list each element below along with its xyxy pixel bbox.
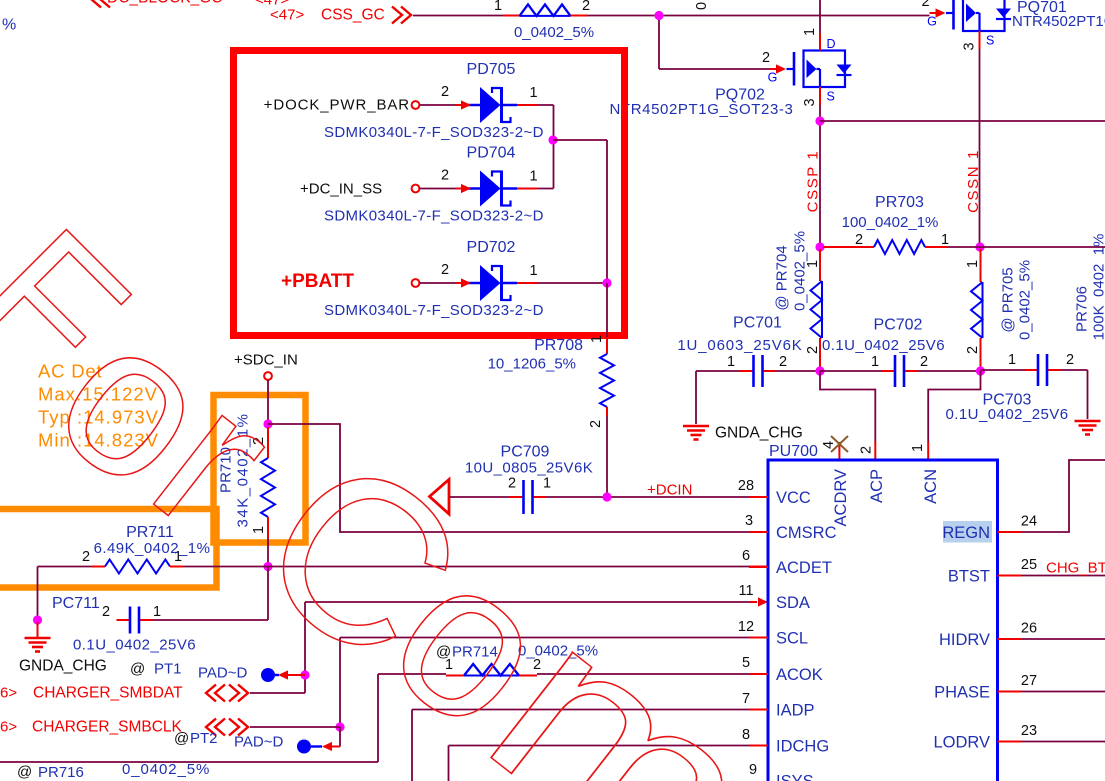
svg-text:1: 1 <box>543 476 551 492</box>
svg-text:2: 2 <box>965 346 981 354</box>
svg-text:PAD~D: PAD~D <box>234 734 283 751</box>
svg-text:2: 2 <box>920 354 928 370</box>
svg-text:23: 23 <box>1021 723 1037 739</box>
svg-text:1: 1 <box>153 604 161 620</box>
svg-text:ACN: ACN <box>922 469 940 504</box>
svg-text:1: 1 <box>529 263 537 279</box>
svg-text:CHG_BTST: CHG_BTST <box>1046 560 1105 577</box>
svg-text:@: @ <box>174 730 189 747</box>
svg-text:2: 2 <box>102 604 110 620</box>
svg-text:2: 2 <box>779 354 787 370</box>
svg-text:1: 1 <box>494 0 502 14</box>
svg-text:DC_BLOCK_GC: DC_BLOCK_GC <box>107 0 222 7</box>
svg-text:LODRV: LODRV <box>933 734 990 752</box>
svg-text:100_0402_1%: 100_0402_1% <box>842 214 939 231</box>
svg-text:2: 2 <box>441 84 449 100</box>
svg-text:NTR4502PT1G_SOT23-3: NTR4502PT1G_SOT23-3 <box>610 101 794 118</box>
svg-text:PR716: PR716 <box>38 764 84 781</box>
svg-text:PD705: PD705 <box>467 61 516 78</box>
svg-text:PU700: PU700 <box>769 443 818 460</box>
svg-text:2: 2 <box>805 346 821 354</box>
svg-text:PD704: PD704 <box>467 145 516 162</box>
svg-text:+DOCK_PWR_BAR: +DOCK_PWR_BAR <box>264 97 410 114</box>
svg-text:@ PR704: @ PR704 <box>774 245 791 310</box>
svg-text:1: 1 <box>910 444 926 452</box>
svg-text:ISYS: ISYS <box>776 773 814 781</box>
svg-text:1: 1 <box>802 28 818 36</box>
svg-text:0.1U_0402_25V6: 0.1U_0402_25V6 <box>822 337 945 354</box>
svg-text:ACP: ACP <box>868 469 886 503</box>
svg-text:2: 2 <box>508 476 516 492</box>
svg-text:GNDA_CHG: GNDA_CHG <box>19 658 107 675</box>
svg-text:2: 2 <box>1066 352 1074 368</box>
svg-text:@: @ <box>17 764 32 781</box>
svg-text:PC711: PC711 <box>52 595 100 612</box>
svg-text:2: 2 <box>582 0 590 14</box>
svg-text:PC709: PC709 <box>501 444 550 461</box>
svg-text:6>: 6> <box>0 685 17 702</box>
svg-text:D: D <box>827 37 836 51</box>
svg-text:6>: 6> <box>0 719 17 736</box>
svg-text:27: 27 <box>1021 673 1037 689</box>
svg-text:PC702: PC702 <box>874 317 923 334</box>
svg-text:0.1U_0402_25V6: 0.1U_0402_25V6 <box>73 637 196 654</box>
svg-text:+DC_IN_SS: +DC_IN_SS <box>300 181 382 198</box>
svg-text:24: 24 <box>1021 514 1037 530</box>
svg-text:SDMK0340L-7-F_SOD323-2~D: SDMK0340L-7-F_SOD323-2~D <box>324 208 544 225</box>
svg-text:0_0402_5%: 0_0402_5% <box>1017 260 1034 340</box>
svg-text:1U_0603_25V6K: 1U_0603_25V6K <box>677 337 802 354</box>
svg-text:REGN: REGN <box>942 524 990 542</box>
svg-text:S: S <box>827 90 835 104</box>
svg-text:2: 2 <box>82 549 90 565</box>
svg-text:PR706: PR706 <box>1074 286 1091 332</box>
svg-text:PT1: PT1 <box>154 661 182 678</box>
svg-text:1: 1 <box>871 354 879 370</box>
svg-text:0.1U_0402_25V6: 0.1U_0402_25V6 <box>945 406 1068 423</box>
svg-text:3: 3 <box>962 42 978 50</box>
svg-text:PT2: PT2 <box>190 730 218 747</box>
svg-text:100K_0402_1%: 100K_0402_1% <box>1091 234 1105 341</box>
svg-text:<47>: <47> <box>270 7 304 24</box>
svg-text:2: 2 <box>855 232 863 248</box>
svg-text:CSSN 1: CSSN 1 <box>965 149 982 213</box>
svg-text:10_1206_5%: 10_1206_5% <box>488 356 576 373</box>
svg-text:1: 1 <box>589 335 605 343</box>
svg-text:2: 2 <box>762 50 770 66</box>
svg-text:CSS_GC: CSS_GC <box>321 7 385 24</box>
svg-text:1: 1 <box>727 354 735 370</box>
svg-text:0_0402_5%: 0_0402_5% <box>514 24 594 41</box>
svg-text:PC701: PC701 <box>733 315 782 332</box>
svg-text:PD702: PD702 <box>467 239 516 256</box>
svg-text:SDA: SDA <box>776 594 810 612</box>
svg-text:BTST: BTST <box>948 568 990 586</box>
svg-text:S: S <box>986 34 994 48</box>
svg-text:3: 3 <box>802 98 818 106</box>
svg-text:GNDA_CHG: GNDA_CHG <box>715 425 803 442</box>
svg-text:26: 26 <box>1021 621 1037 637</box>
svg-text:2: 2 <box>441 168 449 184</box>
svg-text:6: 6 <box>742 548 750 564</box>
svg-text:CMSRC: CMSRC <box>776 524 837 542</box>
svg-text:12: 12 <box>738 619 754 635</box>
svg-text:1: 1 <box>965 260 981 268</box>
svg-text:@ PR705: @ PR705 <box>1000 267 1017 332</box>
svg-text:PAD~D: PAD~D <box>198 665 247 682</box>
svg-text:3: 3 <box>745 513 753 529</box>
svg-text:0: 0 <box>694 2 710 10</box>
svg-text:PHASE: PHASE <box>934 684 990 702</box>
svg-text:ACDET: ACDET <box>776 559 832 577</box>
svg-text:28: 28 <box>738 478 754 494</box>
svg-text:@: @ <box>130 661 145 678</box>
svg-text:1: 1 <box>251 526 267 534</box>
svg-text:+PBATT: +PBATT <box>281 271 354 292</box>
svg-text:ACDRV: ACDRV <box>832 469 850 526</box>
svg-text:2: 2 <box>859 446 875 454</box>
svg-text:1: 1 <box>529 169 537 185</box>
svg-text:PR703: PR703 <box>875 194 924 211</box>
svg-text:25: 25 <box>1021 557 1037 573</box>
svg-text:HIDRV: HIDRV <box>939 631 990 649</box>
svg-text:10U_0805_25V6K: 10U_0805_25V6K <box>465 460 593 477</box>
svg-text:G: G <box>768 71 778 85</box>
svg-text:1: 1 <box>941 232 949 248</box>
svg-text:+DCIN: +DCIN <box>647 482 692 499</box>
svg-text:1: 1 <box>1008 352 1016 368</box>
svg-text:0_0402_5%: 0_0402_5% <box>122 761 210 778</box>
svg-text:ACOK: ACOK <box>776 666 823 684</box>
svg-text:CHARGER_SMBCLK: CHARGER_SMBCLK <box>32 719 183 736</box>
svg-text:CSSP 1: CSSP 1 <box>805 150 822 213</box>
svg-text:NTR4502PT1G: NTR4502PT1G <box>1012 13 1105 30</box>
svg-text:4: 4 <box>821 441 837 449</box>
svg-text:G: G <box>927 15 937 29</box>
svg-text:PR708: PR708 <box>534 337 583 354</box>
svg-text:%: % <box>2 17 16 34</box>
svg-text:1: 1 <box>529 85 537 101</box>
svg-text:2: 2 <box>588 420 604 428</box>
svg-text:2: 2 <box>441 262 449 278</box>
svg-text:CHARGER_SMBDAT: CHARGER_SMBDAT <box>33 685 183 702</box>
svg-text:SDMK0340L-7-F_SOD323-2~D: SDMK0340L-7-F_SOD323-2~D <box>324 124 544 141</box>
svg-text:11: 11 <box>738 583 753 599</box>
svg-text:SDMK0340L-7-F_SOD323-2~D: SDMK0340L-7-F_SOD323-2~D <box>324 302 544 319</box>
svg-text:VCC: VCC <box>776 489 811 507</box>
svg-text:SCL: SCL <box>776 630 808 648</box>
svg-text:2: 2 <box>921 0 929 10</box>
svg-text:0_0402_5%: 0_0402_5% <box>792 231 809 311</box>
